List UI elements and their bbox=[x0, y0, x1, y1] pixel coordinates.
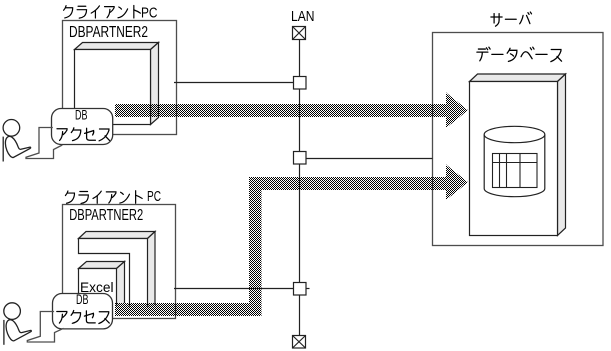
svg-text:DBPARTNER2: DBPARTNER2 bbox=[69, 24, 148, 41]
svg-text:PC: PC bbox=[141, 4, 158, 21]
svg-text:DB: DB bbox=[75, 107, 88, 122]
svg-text:DBPARTNER2: DBPARTNER2 bbox=[69, 207, 143, 224]
svg-text:DB: DB bbox=[76, 292, 89, 307]
svg-text:PC: PC bbox=[147, 188, 161, 205]
svg-text:LAN: LAN bbox=[291, 8, 315, 25]
